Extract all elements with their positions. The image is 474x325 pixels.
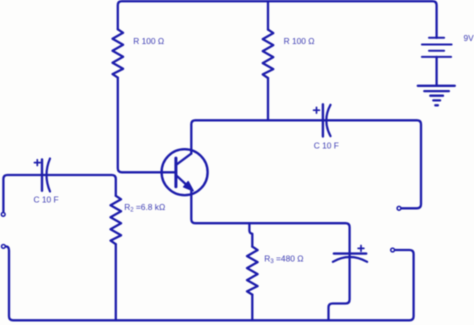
- svg-text:R3 =480 Ω: R3 =480 Ω: [264, 254, 303, 266]
- svg-text:C 10 F: C 10 F: [314, 141, 339, 151]
- svg-text:9V: 9V: [464, 33, 474, 43]
- svg-text:R 100 Ω: R 100 Ω: [284, 36, 315, 46]
- svg-text:C 10 F: C 10 F: [34, 194, 59, 204]
- svg-text:R2 =6.8 kΩ: R2 =6.8 kΩ: [124, 202, 165, 214]
- svg-text:R 100 Ω: R 100 Ω: [133, 36, 164, 46]
